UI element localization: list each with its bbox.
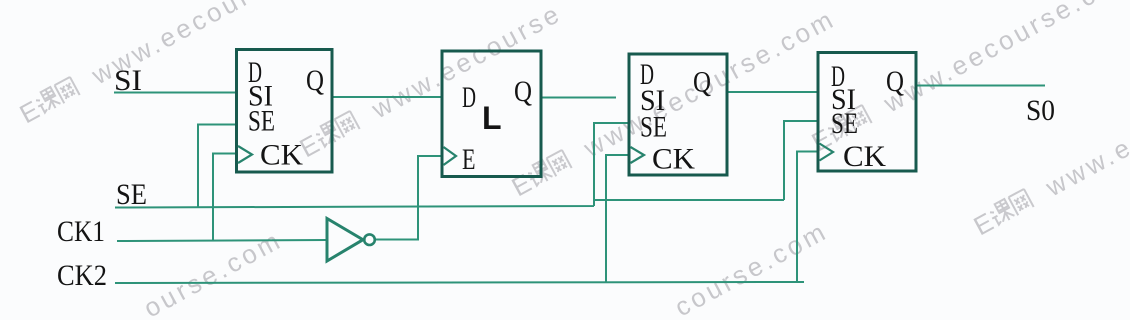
U4 clock triangle <box>820 144 834 161</box>
svg-text:CK2: CK2 <box>57 259 107 292</box>
net label CK2 <box>57 259 107 292</box>
wire U2.Q output stub <box>541 97 616 99</box>
svg-text:Q: Q <box>306 64 324 97</box>
watermark tile G <box>807 0 1130 157</box>
wire CK2 rail <box>115 282 804 283</box>
svg-text:Q: Q <box>693 66 711 99</box>
inverter G1 <box>327 219 375 262</box>
watermark tile A top-left <box>15 0 349 129</box>
watermark tile D <box>507 3 841 202</box>
wire U4.CK input from CK2 rail <box>797 152 818 282</box>
U2 enable triangle <box>444 147 457 165</box>
wire U4.SE input from SE rail <box>783 121 818 200</box>
svg-text:SE: SE <box>640 111 667 144</box>
svg-text:D: D <box>462 81 476 114</box>
watermark tile F bottom-left (partial) <box>139 224 288 320</box>
svg-text:CK: CK <box>652 143 695 176</box>
flip-flop U4 <box>818 53 916 174</box>
wire U3.SE input from SE rail <box>594 123 629 200</box>
watermark tile E2 <box>969 42 1130 241</box>
wire U4.Q to SO <box>916 85 1045 87</box>
svg-text:SE: SE <box>116 178 147 211</box>
svg-text:E: E <box>462 143 476 176</box>
wire U1.Q to U2.D <box>332 96 442 98</box>
wire SI input to U1.D <box>114 92 236 94</box>
svg-text:SE: SE <box>831 107 858 140</box>
net label SE <box>116 178 147 211</box>
wire CK1 rail to inverter input <box>117 240 327 241</box>
svg-text:L: L <box>482 100 502 136</box>
watermark tile C bottom-center (partial) <box>670 215 833 320</box>
U1 clock triangle <box>238 146 252 163</box>
svg-text:CK: CK <box>843 140 886 173</box>
U3 clock triangle <box>631 147 645 163</box>
svg-text:CK1: CK1 <box>57 215 105 248</box>
watermark tile B <box>295 0 567 163</box>
svg-text:CK: CK <box>260 139 303 172</box>
wire U1.CK input from CK1 rail <box>213 154 236 242</box>
wire U3.CK input from CK2 rail <box>606 155 629 282</box>
svg-text:Q: Q <box>514 75 532 108</box>
svg-text:S0: S0 <box>1026 94 1055 127</box>
flip-flop U3 <box>629 54 727 176</box>
svg-text:course.com: course.com <box>670 215 833 320</box>
latch U2 <box>442 51 541 177</box>
net label SO <box>1026 94 1055 127</box>
svg-text:SI: SI <box>114 64 142 97</box>
net label SI <box>114 64 142 97</box>
svg-text:Q: Q <box>886 65 904 98</box>
flip-flop U1 <box>237 50 333 173</box>
net label CK1 <box>57 215 105 248</box>
wire U3.Q to U4.D <box>727 91 818 93</box>
wire inverter output to U2.E <box>375 156 442 240</box>
svg-text:SE: SE <box>248 105 275 138</box>
wire SE rail <box>115 200 783 208</box>
wire U1.SE input from SE rail <box>198 125 236 208</box>
